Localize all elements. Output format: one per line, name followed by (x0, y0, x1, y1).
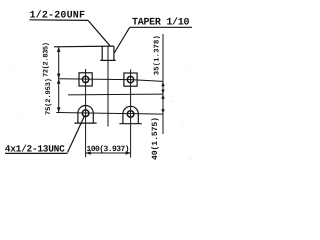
svg-text:100(3.937): 100(3.937) (87, 145, 130, 154)
svg-text:TAPER 1/10: TAPER 1/10 (132, 17, 190, 29)
svg-text:75(2.953): 75(2.953) (44, 78, 53, 115)
svg-text:72(2.835): 72(2.835) (42, 42, 51, 77)
svg-text:1/2-20UNF: 1/2-20UNF (30, 9, 86, 21)
svg-text:4x1/2-13UNC: 4x1/2-13UNC (5, 144, 65, 155)
svg-text:40(1.575): 40(1.575) (151, 117, 160, 160)
svg-text:35(1.378): 35(1.378) (153, 35, 162, 75)
